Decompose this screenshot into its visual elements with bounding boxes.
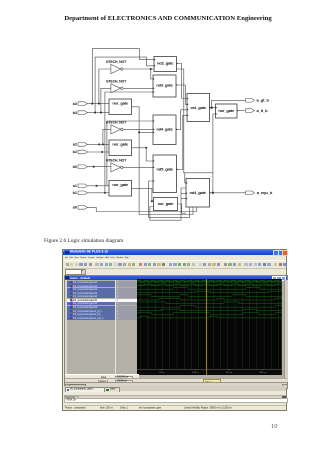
inverter U4 GTECH_NOT	[111, 163, 123, 172]
wave window	[64, 275, 288, 388]
input port a1	[78, 184, 88, 188]
left thin strip	[65, 280, 68, 374]
menu bar	[64, 256, 258, 260]
svg-text:a_gt_b: a_gt_b	[257, 98, 270, 103]
svg-text:150 ns: 150 ns	[226, 372, 233, 374]
wire nd2_gate output to or4_gate	[177, 64, 188, 99]
wire a3 input net	[88, 103, 110, 105]
wire U1 output branch to nd3_gate	[151, 69, 153, 79]
svg-text:or4_gate: or4_gate	[190, 105, 206, 110]
svg-text:a_equ_b: a_equ_b	[257, 190, 273, 195]
wire b3 input net	[88, 112, 110, 114]
wire nor_gate3 output to bottom nor_gate	[132, 188, 154, 201]
junction or4 output	[211, 107, 213, 109]
junction on b0 net	[93, 166, 95, 168]
wave window title	[65, 276, 287, 280]
wire nor_gateR lower input vertical	[213, 114, 216, 193]
svg-text:nor_gate: nor_gate	[112, 100, 129, 105]
junction on a1 net	[95, 185, 97, 187]
wire ndBR input stub 2	[181, 192, 186, 194]
nand gate nd4_gate	[153, 115, 176, 145]
vertical scrollbar	[284, 280, 287, 382]
label port a0	[73, 206, 77, 210]
label port a2	[73, 143, 77, 147]
tab bar	[64, 386, 286, 391]
input port b2	[78, 150, 88, 154]
nand gate ndBR	[186, 179, 210, 208]
svg-text:nor_gate: nor_gate	[218, 108, 235, 113]
input port a3	[78, 102, 88, 106]
svg-text:GTECH_NOT: GTECH_NOT	[106, 159, 127, 163]
nand gate nd3_gate	[153, 75, 176, 97]
label port a1	[73, 184, 77, 188]
wire b0 input net	[88, 166, 111, 168]
wire a2 to U3 inverter input	[103, 129, 111, 144]
values separator lines	[114, 280, 117, 374]
label port b0	[73, 165, 77, 169]
nor gate nor_gate2	[109, 140, 132, 156]
output port a_gt_b	[246, 99, 255, 103]
wire nd4_gate branch input	[139, 131, 153, 133]
svg-text:b3: b3	[73, 111, 77, 115]
Cursor row	[65, 378, 287, 383]
svg-text:nd5_gate: nd5_gate	[157, 167, 174, 172]
label port b1	[73, 191, 77, 195]
label net a_equ_b	[257, 190, 273, 195]
label nor_gate3	[112, 182, 129, 187]
or gate or4_gate	[187, 94, 210, 122]
wire ndBR upper input	[185, 173, 186, 183]
junction on b3 net	[94, 112, 96, 114]
wire or4_gate output to nor_gateR and a_gt_b	[210, 100, 246, 107]
label nor_gate2	[112, 141, 129, 146]
junction nor_gate2 output	[145, 147, 147, 149]
svg-text:a2: a2	[73, 143, 77, 147]
nand gate nd2_gate	[154, 57, 177, 72]
pin marks nd4_gate	[153, 120, 178, 133]
svg-text:nd4_gate: nd4_gate	[190, 190, 207, 195]
junction on a2 net 2	[102, 143, 104, 145]
wire bottom nor_gate output	[178, 204, 187, 213]
wire nd5_gate output to or4_gate	[177, 115, 188, 169]
svg-text:nd4_gate: nd4_gate	[156, 127, 173, 132]
svg-text:nor_gate: nor_gate	[158, 201, 175, 206]
junction on b2 net	[101, 151, 103, 153]
pin marks nd3_gate	[153, 78, 178, 93]
wire a1 input net	[88, 185, 110, 187]
nand gate nd5_gate	[153, 155, 177, 193]
input port a0	[78, 206, 88, 210]
pin marks nd5_gate	[153, 160, 178, 182]
nor gate nor_gateB	[154, 198, 178, 211]
svg-text:a0: a0	[73, 206, 77, 210]
junction on a3 net 2	[98, 103, 100, 105]
svg-text:a_lt_b: a_lt_b	[257, 108, 269, 113]
label nd5_gate	[157, 167, 174, 172]
inverter U2 GTECH_NOT	[111, 84, 123, 93]
junction on a3 net	[91, 103, 93, 105]
svg-text:GTECH_NOT: GTECH_NOT	[106, 121, 127, 125]
label port b2	[73, 150, 77, 154]
wire b2 input net	[88, 151, 110, 153]
wire a3 to nd2_gate top route	[92, 49, 154, 104]
label U2 GTECH_NOT	[106, 80, 127, 84]
svg-text:nd3_gate: nd3_gate	[156, 83, 173, 88]
label net a_lt_b	[257, 108, 269, 113]
wire b3 to U2 inverter input	[101, 88, 111, 112]
toolbar row 2	[64, 268, 286, 276]
label nor_gate1	[112, 100, 129, 105]
nor gate nor_gateR	[216, 104, 238, 118]
wire a0 input net to bottom run	[88, 207, 197, 212]
label U4 GTECH_NOT	[106, 159, 127, 163]
svg-text:b0: b0	[73, 165, 77, 169]
wire bottom nor_gate second input run	[150, 188, 186, 220]
pin marks nd2_gate	[154, 59, 178, 67]
wire long vertical bus to nd3_gate	[105, 92, 153, 193]
svg-text:100 ns: 100 ns	[193, 372, 200, 374]
svg-text:GTECH_NOT: GTECH_NOT	[106, 60, 127, 64]
svg-text:200 ns: 200 ns	[260, 372, 267, 374]
svg-text:GTECH_NOT: GTECH_NOT	[106, 80, 127, 84]
junction on a2 net	[98, 143, 100, 145]
wire U2 output to nd3_gate	[123, 87, 153, 89]
junction on b1 net	[104, 192, 106, 194]
Now row	[65, 374, 140, 379]
label or4_gate	[190, 105, 206, 110]
wire nd5_gate lower input from bottom run	[149, 181, 190, 217]
transcript header	[64, 395, 286, 399]
pin marks nor_gateR	[216, 107, 239, 115]
wire ndBR output to a_equ_b	[210, 192, 246, 194]
label U3 GTECH_NOT	[106, 121, 127, 125]
label net a_gt_b	[257, 98, 270, 103]
svg-text:nor_gate: nor_gate	[112, 182, 129, 187]
wire a2 input net	[88, 143, 110, 145]
label nor_gateB	[158, 201, 175, 206]
wire a3 to U1 inverter input	[99, 69, 111, 104]
wire nd4_gate output to or4_gate	[176, 110, 187, 130]
wire nor_gateR output to a_lt_b	[237, 110, 246, 112]
nor gate nor_gate3	[109, 181, 132, 197]
wave svg area	[137, 279, 282, 375]
svg-text:a1: a1	[73, 184, 77, 188]
pin marks or4_gate	[187, 98, 211, 117]
junction nor_gate1 output	[138, 131, 140, 133]
inverter U1 GTECH_NOT	[111, 64, 123, 73]
status bar	[64, 405, 286, 410]
wire U1 output long net	[123, 69, 213, 173]
label nd2_gate	[157, 61, 174, 66]
inverter U3 GTECH_NOT	[111, 125, 123, 134]
horizontal scrollbar	[65, 382, 287, 387]
svg-text:nor_gate: nor_gate	[112, 141, 129, 146]
wire nor_gate2 output to nd5_gate	[132, 148, 154, 161]
pin marks ndBR	[186, 182, 211, 200]
output port a_equ_b	[246, 191, 255, 195]
label nor_gateR	[218, 108, 235, 113]
wire U4 output to nd5_gate	[123, 166, 153, 168]
label port a3	[73, 102, 77, 106]
wire a1 vertical to nd4_gate input	[107, 121, 153, 186]
svg-text:b1: b1	[73, 191, 77, 195]
nor gate nor_gate1	[109, 99, 132, 115]
label U1 GTECH_NOT	[106, 60, 127, 64]
svg-text:nd2_gate: nd2_gate	[157, 61, 174, 66]
junction bottom nor input	[151, 200, 153, 202]
input port b3	[78, 111, 88, 115]
svg-text:b2: b2	[73, 150, 77, 154]
output port a_lt_b	[246, 109, 255, 113]
wire U3 output to nd4_gate	[123, 128, 153, 130]
input port a2	[78, 143, 88, 147]
wire b1 input net	[88, 192, 110, 194]
label nd4_gate	[156, 127, 173, 132]
input port b1	[78, 191, 88, 195]
svg-text:50 ns: 50 ns	[160, 372, 166, 374]
wire nd3_gate output to or4_gate	[176, 85, 187, 104]
wire nor_gate1 output to nd4_gate	[132, 107, 194, 215]
title bar	[63, 250, 287, 256]
junction on b3 net 2	[100, 112, 102, 114]
wire ndBR input stub 3	[181, 198, 186, 200]
label nd3_gate	[156, 83, 173, 88]
svg-text:a3: a3	[73, 102, 77, 106]
label port b3	[73, 111, 77, 115]
junction a_equ_b net	[212, 192, 214, 194]
label ndBR	[190, 190, 207, 195]
toolbar row 1	[64, 260, 286, 269]
wire b3 to nd2_gate second route	[95, 57, 154, 113]
junction U1 output branch	[150, 68, 152, 70]
transcript body	[64, 398, 288, 404]
input port b0	[78, 165, 88, 169]
